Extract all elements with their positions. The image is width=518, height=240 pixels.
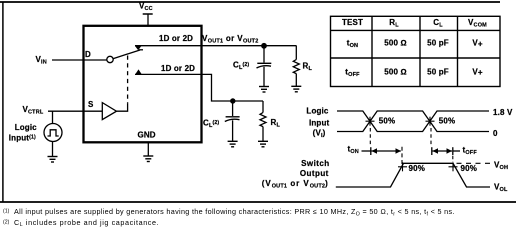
- resistor RL lower: [260, 113, 266, 127]
- table: [331, 16, 501, 86]
- svg-text:50%: 50%: [439, 117, 455, 126]
- svg-text:Switch: Switch: [301, 159, 329, 168]
- switch output waveform: [336, 163, 490, 187]
- logic input high rail: [337, 111, 489, 132]
- ground (upper CL): [259, 87, 269, 93]
- svg-text:(1): (1): [3, 208, 10, 214]
- svg-text:90%: 90%: [409, 164, 425, 173]
- wire upper CL drop: [263, 46, 265, 63]
- tOFF right drop dash: [452, 156, 454, 162]
- junction dot upper: [261, 43, 267, 49]
- svg-text:TEST: TEST: [342, 18, 363, 27]
- Vin wire: [52, 59, 107, 61]
- frame left: [2, 2, 4, 202]
- svg-text:50 pF: 50 pF: [427, 39, 449, 48]
- wire below upper RL: [295, 74, 297, 87]
- frame top: [0, 1, 500, 3]
- tON arrowhead left: [372, 148, 378, 153]
- tOFF left bar: [431, 147, 433, 155]
- svg-text:1.8 V: 1.8 V: [493, 108, 513, 117]
- wire lower CL drop: [232, 101, 234, 116]
- switch pivot circle: [107, 56, 113, 62]
- tON right drop dash: [401, 147, 403, 164]
- pulse symbol: [48, 130, 59, 136]
- logic input low rail: [337, 111, 489, 132]
- dashed drop from X1: [369, 128, 371, 146]
- tOFF right bar: [452, 147, 454, 155]
- wire below lower RL: [262, 127, 264, 142]
- Vctrl wire: [48, 110, 102, 112]
- 50% cross mark 1: [366, 117, 375, 126]
- svg-text:500 Ω: 500 Ω: [384, 39, 406, 48]
- tOFF arrowhead right: [447, 148, 453, 153]
- svg-text:1D or 2D: 1D or 2D: [161, 64, 195, 73]
- svg-text:S: S: [88, 100, 94, 109]
- svg-text:Logic: Logic: [15, 123, 37, 132]
- 50% cross mark 2: [426, 117, 435, 126]
- svg-text:Input: Input: [309, 119, 329, 128]
- svg-text:1D or 2D: 1D or 2D: [159, 34, 193, 43]
- svg-text:V+: V+: [472, 39, 483, 49]
- tON arrowhead right: [396, 148, 402, 153]
- wire upper RL drop: [295, 46, 297, 60]
- frame bottom: [0, 201, 516, 203]
- svg-text:90%: 90%: [461, 164, 477, 173]
- svg-text:All input pulses are supplied: All input pulses are supplied by generat…: [14, 207, 455, 217]
- ground (generator): [48, 157, 58, 163]
- svg-text:(VI): (VI): [313, 129, 326, 140]
- GND pin wire: [147, 142, 149, 156]
- tON arrow shaft: [372, 150, 401, 152]
- svg-text:0: 0: [493, 129, 498, 138]
- Vcc T-bar: [143, 13, 153, 15]
- svg-text:50%: 50%: [379, 117, 395, 126]
- svg-text:50 pF: 50 pF: [427, 67, 449, 76]
- svg-text:(2): (2): [3, 220, 10, 226]
- ground (lower RL): [258, 141, 268, 147]
- svg-text:GND: GND: [138, 130, 156, 139]
- junction dot lower: [230, 98, 235, 103]
- svg-text:CL includes probe and jig capa: CL includes probe and jig capacitance.: [14, 218, 159, 228]
- VOH dashed level: [457, 162, 491, 164]
- svg-text:Logic: Logic: [306, 107, 328, 116]
- switch arm: [113, 50, 140, 59]
- tOFF arrowhead left: [433, 148, 439, 153]
- arrowheads (filled): [135, 43, 452, 154]
- wire below upper CL: [263, 67, 265, 87]
- 90% cross mark 2: [449, 162, 458, 171]
- buffer triangle U1: [102, 103, 116, 120]
- 90% cross mark 1: [398, 162, 407, 171]
- tOFF lead line: [453, 150, 460, 152]
- tOFF arrow shaft: [433, 150, 453, 152]
- pulse generator circle: [44, 124, 62, 142]
- tON lead line: [362, 150, 371, 152]
- buffer output wire: [117, 104, 128, 112]
- svg-text:D: D: [85, 50, 91, 59]
- wire lower RL drop: [262, 101, 264, 113]
- Vcc pin wire: [147, 14, 149, 26]
- output line 1D or 2D (top): [135, 45, 297, 47]
- capacitor CL upper: [257, 63, 272, 68]
- resistor RL upper: [293, 60, 299, 74]
- wire below lower CL: [232, 120, 234, 141]
- switch contact arrow up: [135, 69, 142, 74]
- capacitor CL lower: [225, 117, 240, 122]
- tON left bar: [370, 147, 372, 155]
- svg-text:Output: Output: [300, 169, 329, 178]
- ground (lower CL): [228, 141, 238, 147]
- generator ground wire: [52, 142, 54, 157]
- ground (upper RL): [291, 86, 301, 92]
- svg-text:V+: V+: [472, 67, 483, 77]
- ground (GND pin): [143, 156, 153, 162]
- DUT box: [84, 26, 202, 143]
- dash-dot select line: [127, 56, 129, 104]
- output line 1D or 2D (bottom): [135, 74, 263, 101]
- pulse generator drop wire: [52, 111, 54, 123]
- switch contact arrow down: [135, 46, 142, 51]
- dashed drop from X2: [430, 128, 432, 146]
- svg-text:500 Ω: 500 Ω: [384, 67, 406, 76]
- switch contact tick: [139, 49, 143, 51]
